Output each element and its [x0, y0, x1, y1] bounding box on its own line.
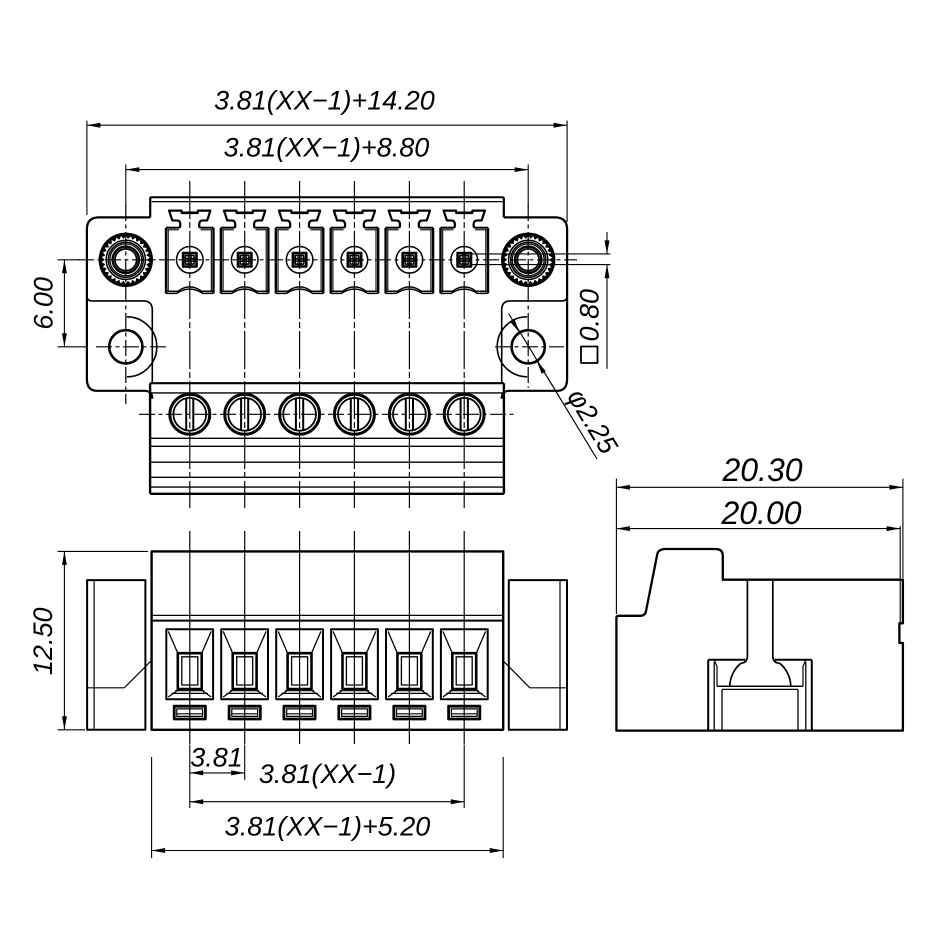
- svg-text:6.00: 6.00: [29, 277, 59, 330]
- dim 20.30: [616, 452, 903, 614]
- side view: socket inner box: [717, 686, 803, 730]
- side view: T-pin right edge: [773, 580, 780, 664]
- horizontal centreline through screws: [78, 259, 577, 261]
- slotted screw 1 (plug section): [170, 394, 210, 434]
- terminal cell 6 (top view): [441, 211, 489, 294]
- top view: outer body outline: [87, 197, 567, 399]
- funnel opening 4 (front view): [331, 629, 378, 699]
- funnel opening 6 (front view): [441, 629, 488, 699]
- svg-text:20.30: 20.30: [721, 452, 802, 488]
- pole 2 vertical centreline (top view): [244, 181, 246, 508]
- slotted screw 4 (plug section): [334, 394, 374, 434]
- svg-text:3.81(XX−1): 3.81(XX−1): [259, 759, 396, 789]
- right mounting hole: [512, 330, 545, 363]
- funnel opening 3 (front view): [276, 629, 323, 699]
- left knurled screw head: [99, 233, 153, 287]
- plug screws centreline: [139, 413, 517, 415]
- contact slot 2 (front view): [229, 706, 260, 719]
- svg-text:3.81(XX−1)+14.20: 3.81(XX−1)+14.20: [214, 86, 435, 116]
- slotted screw 6 (plug section): [444, 394, 484, 434]
- pole 2 vertical centreline (front view): [244, 531, 246, 744]
- side view: socket walls: [708, 660, 812, 731]
- terminal cell 4 (top view): [331, 211, 379, 294]
- contact slot 3 (front view): [284, 706, 315, 719]
- left hole boss arc: [127, 317, 157, 377]
- contact slot 1 (front view): [174, 706, 205, 719]
- dim 3.81: [190, 743, 245, 809]
- dim 3.81(XX-1)+8.80: [126, 133, 528, 208]
- contact slot 5 (front view): [394, 706, 425, 719]
- slotted screw 3 (plug section): [280, 394, 320, 434]
- front view: main body rectangle: [152, 551, 504, 729]
- svg-text:12.50: 12.50: [28, 608, 58, 676]
- front view: left flange: [87, 580, 152, 730]
- pole 3 vertical centreline (top view): [299, 181, 301, 508]
- pole 6 vertical centreline (top view): [463, 181, 465, 508]
- front view: horizontal double line: [152, 615, 504, 620]
- pole 6 vertical centreline (front view): [463, 531, 465, 744]
- svg-text:3.81(XX−1)+8.80: 3.81(XX−1)+8.80: [224, 133, 430, 163]
- left mounting hole: [109, 330, 142, 363]
- terminal cell 5 (top view): [386, 211, 434, 294]
- terminal cell 2 (top view): [221, 211, 269, 294]
- svg-text:0.80: 0.80: [575, 289, 605, 342]
- svg-text:3.81(XX−1)+5.20: 3.81(XX−1)+5.20: [225, 812, 431, 842]
- pole 5 vertical centreline (top view): [408, 181, 410, 508]
- pole 4 vertical centreline (front view): [353, 531, 355, 744]
- left screw vertical centreline: [125, 205, 127, 404]
- slotted screw 2 (plug section): [225, 394, 265, 434]
- side view: body outline: [616, 549, 903, 731]
- right screw vertical centreline: [527, 205, 529, 388]
- plug section inner lines: [150, 393, 504, 487]
- terminal cell 1 (top view): [166, 211, 214, 294]
- side view: T-pin left edge: [741, 580, 747, 664]
- plug section outline: [150, 383, 504, 494]
- slotted screw 5 (plug section): [389, 394, 429, 434]
- top view: raised top band: [150, 197, 504, 201]
- right knurled screw head: [501, 233, 555, 287]
- dim 3.81(XX-1)+5.20: [152, 757, 504, 858]
- pole 1 vertical centreline (front view): [189, 531, 191, 744]
- svg-text:20.00: 20.00: [720, 495, 801, 531]
- leader dim phi2.25: [509, 314, 624, 460]
- top view: right lobe divider: [502, 296, 567, 383]
- dim 3.81(XX-1)+14.20: [87, 86, 567, 223]
- left hole centreline: [96, 346, 168, 348]
- funnel opening 2 (front view): [221, 629, 268, 699]
- svg-text:φ2.25: φ2.25: [561, 384, 624, 460]
- funnel opening 1 (front view): [166, 629, 213, 699]
- top view: left lobe divider: [87, 296, 152, 383]
- dim 6.00: [29, 260, 89, 347]
- front view: right flange: [502, 580, 567, 730]
- svg-text:3.81: 3.81: [190, 743, 243, 773]
- right hole centreline: [495, 346, 564, 348]
- pole 5 vertical centreline (front view): [408, 531, 410, 744]
- dim 3.81(XX-1): [190, 745, 464, 809]
- pole 3 vertical centreline (front view): [299, 531, 301, 744]
- terminal cell 3 (top view): [276, 211, 324, 294]
- right hole boss arc: [497, 317, 527, 377]
- pole 1 vertical centreline (top view): [189, 181, 191, 508]
- dim 20.00: [616, 495, 900, 623]
- dim 12.50: [28, 551, 148, 729]
- dim 0.80 square: [471, 232, 611, 369]
- contact slot 6 (front view): [449, 706, 480, 719]
- funnel opening 5 (front view): [386, 629, 433, 699]
- contact slot 4 (front view): [339, 706, 370, 719]
- pole 4 vertical centreline (top view): [353, 181, 355, 508]
- side view: contact dome: [730, 663, 791, 686]
